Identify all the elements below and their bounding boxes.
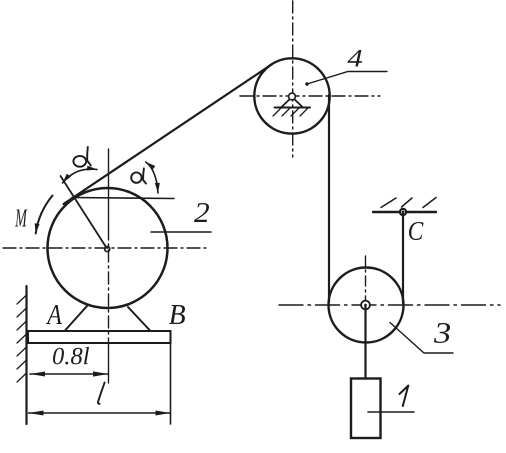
wall line <box>25 286 27 424</box>
dimension 0.8l text <box>53 347 89 365</box>
radius line to tangent point <box>61 176 107 247</box>
vertical centerline pulley 4 <box>292 1 294 157</box>
alpha label left <box>73 147 90 167</box>
horizontal centerline pulley 3 <box>279 304 500 306</box>
angle alpha arc right <box>146 162 158 193</box>
label A <box>46 305 62 324</box>
label 1 <box>400 386 409 407</box>
support C hatching <box>381 198 436 208</box>
weight 1 rectangle <box>351 379 381 439</box>
label 4 <box>348 50 363 67</box>
label 2 with leader underline <box>151 231 211 233</box>
moment M arc <box>36 196 53 234</box>
label 1 leader <box>368 411 414 413</box>
base plate <box>28 331 171 343</box>
alpha label right <box>131 168 146 183</box>
pulley 3 hub <box>361 301 370 310</box>
horizontal centerline pulley 4 <box>240 95 380 97</box>
drum hub <box>105 246 110 251</box>
label B <box>169 305 185 324</box>
pulley 4 circle <box>254 58 329 133</box>
wall hatching <box>17 295 27 382</box>
support C line <box>373 211 436 213</box>
label M <box>15 210 28 227</box>
label C <box>409 222 424 240</box>
angle alpha arc left <box>63 169 98 183</box>
horizontal centerline of drum <box>3 247 207 249</box>
drum 2 (circle) <box>48 188 168 308</box>
dimension l line <box>29 412 171 414</box>
dimension 0.8l line <box>30 373 108 375</box>
label 3 leader <box>390 323 453 354</box>
horizontal reference line at tangent point <box>72 198 174 199</box>
vertical centerline of drum <box>108 149 110 383</box>
rope pulley4 to pulley3 <box>328 95 330 302</box>
support leg right <box>128 307 150 331</box>
pulley 4 support hatching <box>273 108 308 116</box>
support leg left <box>65 306 87 331</box>
label 3 <box>434 323 450 343</box>
pulley 3 circle <box>329 268 404 343</box>
pulley 4 pin <box>289 93 296 100</box>
right extension line <box>170 344 172 424</box>
rope drum to pulley 4 <box>64 64 273 204</box>
support C pin <box>400 209 406 215</box>
vertical centerline pulley 3 <box>365 256 367 300</box>
dimension l text <box>98 383 105 404</box>
label 4 leader dot <box>305 82 309 86</box>
label 4 leader <box>307 72 387 85</box>
rope C to pulley 3 <box>402 213 404 303</box>
pulley 4 pin support triangle <box>281 97 292 108</box>
rope pulley 3 to weight <box>364 305 366 378</box>
